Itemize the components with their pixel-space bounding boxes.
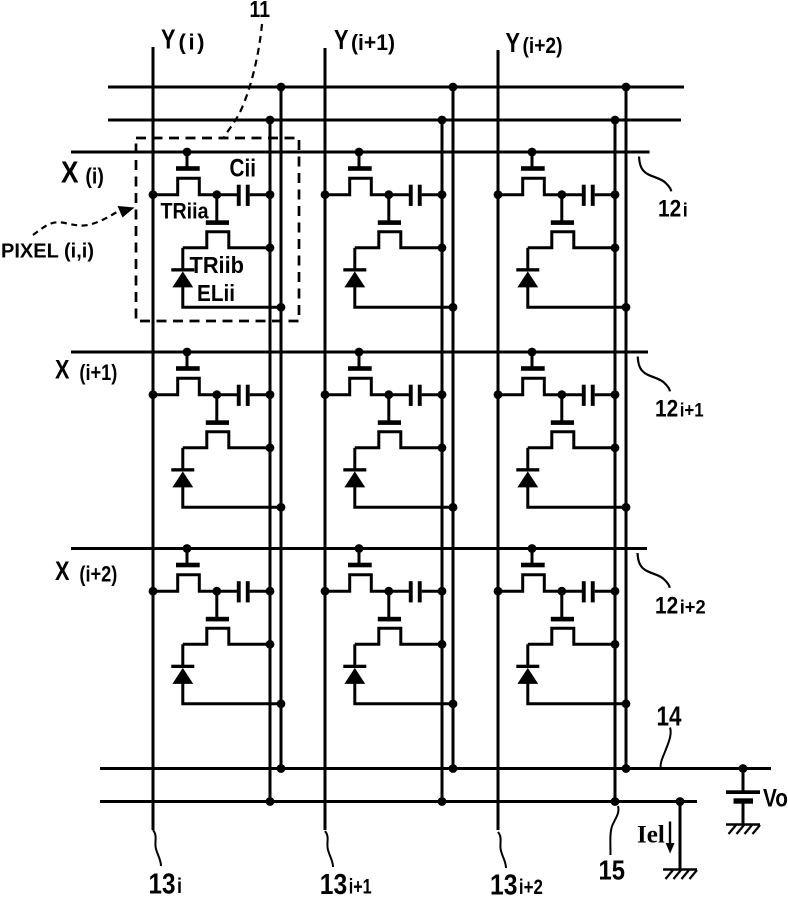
wire: top common rail segment of line 15 (108, 119, 681, 122)
wire: gate stub of TR(i,i)a (186, 152, 189, 167)
EL element EL(i,i) cathode bar (171, 268, 194, 271)
wire: capacitor C(i+2,i+2) to common feed (595, 590, 615, 593)
node: gate tap of pixel (i+2,i+2) on X(i+2) (528, 544, 537, 553)
svg-text:i: i (177, 875, 182, 897)
node: gate tap of pixel (i,i+1) on X(i) (355, 148, 364, 157)
transistor TR(i+2,i+1)a channel (325, 575, 389, 591)
transistor TR(i,i)a gate bar (176, 166, 200, 171)
leader: dashed curve from 11 to pixel box (224, 24, 262, 137)
node: bottom line 14 to feed i+1 (449, 764, 458, 773)
svg-text:(i+2): (i+2) (523, 33, 563, 58)
wire: EL(i+2,i+2) anode return (528, 683, 626, 704)
capacitor C(i+2,i) right plate (246, 581, 250, 602)
wire: pixel common feed line (net 15) column i+1 (441, 120, 444, 802)
wire: EL(i+2,i) anode return (183, 683, 281, 704)
svg-text:PIXEL (i,i): PIXEL (i,i) (1, 240, 94, 263)
wire: capacitor C(i+1,i) to common feed (250, 393, 270, 396)
transistor TR(i+2,i)b gate bar (206, 617, 229, 622)
EL element EL(i+2,i+1) cathode bar (343, 665, 366, 668)
wire: TR(i+1,i)b source to EL(i+1,i) (181, 448, 184, 470)
transistor TR(i+2,i+2)b channel (528, 628, 615, 644)
wire: TR(i,i)b source to EL(i,i) (181, 248, 184, 270)
EL element EL(i,i) diode triangle (172, 271, 193, 287)
EL element EL(i+2,i+2) diode triangle (517, 668, 538, 684)
leader: X(i+2) to 12i+2 (638, 553, 670, 588)
wire: EL(i,i+2) anode return (528, 287, 626, 308)
node: TR(i+1,i+2)b drain on feed line (611, 443, 620, 452)
wire: TR(i+2,i+1)b source to EL(i+2,i+1) (353, 644, 356, 666)
node: C(i+2,i) right plate on feed line (266, 587, 275, 596)
transistor TR(i+2,i)a gate bar (176, 563, 200, 568)
wire: junction to capacitor C(i+1,i+2) (562, 393, 582, 396)
svg-text:12: 12 (655, 396, 678, 423)
node: gate tap of pixel (i+2,i+1) on X(i+2) (355, 544, 364, 553)
svg-text:i+1: i+1 (349, 876, 372, 898)
node: TR(i+2,i)b drain on feed line (266, 640, 275, 649)
leader: Y(i+2) to 13i+2 (498, 832, 506, 868)
wire: bottom supply line 14 (100, 767, 771, 770)
svg-text:14: 14 (657, 701, 683, 732)
wire: pixel supply feed line (net 14) column i (280, 87, 283, 769)
node: bottom line 14 to feed i (277, 764, 286, 773)
wire: TR(i,i+1)b source to EL(i,i+1) (353, 248, 356, 270)
EL element EL(i+1,i) diode triangle (172, 471, 193, 487)
voltage source Vo bottom plate (734, 798, 754, 803)
wire: junction to capacitor C(i,i+2) (562, 193, 582, 196)
node: EL(i+1,i+2) anode on supply feed (622, 503, 631, 512)
capacitor C(i+1,i+2) right plate (591, 385, 595, 406)
node: TR(i+1,i+1)b drain on feed line (438, 443, 447, 452)
node: TR(i,i+2)b drain on feed line (611, 243, 620, 252)
wire: EL(i,i+1) anode return (355, 287, 453, 308)
capacitor C(i+1,i+2) left plate (582, 385, 586, 406)
node: gate tap of pixel (i+1,i+2) on X(i+1) (528, 348, 537, 357)
wire: junction to capacitor C(i,i) (217, 193, 237, 196)
svg-text:X: X (55, 355, 70, 385)
wire: gate stub of TR(i,i+2)b (560, 195, 563, 221)
wire: pixel supply feed line (net 14) column i+2 (625, 87, 628, 769)
leader: X(i) to 12i (639, 157, 671, 192)
wire: TR(i+1,i+1)b source to EL(i+1,i+1) (353, 448, 356, 470)
svg-text:12: 12 (658, 196, 681, 223)
node: TR(i+1,i+1)a drain junction (384, 390, 393, 399)
node: line14 rail to feed i+1 (449, 83, 458, 92)
svg-text:X: X (61, 155, 79, 190)
node: gate tap of pixel (i+1,i) on X(i+1) (183, 348, 192, 357)
wire: Vo branch stub (742, 769, 745, 792)
capacitor C(i+1,i+1) right plate (418, 385, 422, 406)
transistor TR(i+2,i+2)a gate bar (521, 563, 545, 568)
svg-text:i+1: i+1 (680, 401, 704, 422)
transistor TR(i+1,i+1)a channel (325, 378, 389, 394)
svg-text:15: 15 (599, 855, 626, 886)
svg-text:Y: Y (334, 24, 349, 55)
node: TR(i,i)a source on Y(i) (149, 190, 158, 199)
node: C(i,i+1) right plate on feed line (438, 190, 447, 199)
svg-text:TRiib: TRiib (190, 252, 245, 278)
transistor TR(i+2,i+2)b gate bar (551, 617, 574, 622)
wire: EL(i+1,i) anode return (183, 487, 281, 508)
wire: junction to capacitor C(i+1,i+1) (389, 393, 409, 396)
leader: 14 to line 14 (661, 728, 671, 769)
transistor TR(i,i+1)a channel (325, 178, 389, 194)
svg-text:TRiia: TRiia (161, 199, 209, 224)
svg-text:i: i (683, 201, 688, 222)
node: gate tap of pixel (i,i) on X(i) (183, 148, 192, 157)
node: bottom line 15 to feed i+1 (438, 797, 447, 806)
capacitor C(i+2,i+2) right plate (591, 581, 595, 602)
svg-text:(i+1): (i+1) (79, 360, 117, 385)
svg-text:Y: Y (161, 24, 176, 55)
transistor TR(i,i+2)b gate bar (551, 220, 574, 225)
transistor TR(i+1,i+1)b gate bar (378, 420, 401, 425)
transistor TR(i+1,i)b channel (183, 432, 270, 448)
transistor TR(i+1,i+2)b gate bar (551, 420, 574, 425)
transistor TR(i+1,i)b gate bar (206, 420, 229, 425)
wire: column data line Y(i+2) / 13i+2 (497, 50, 500, 830)
svg-text:X: X (55, 556, 70, 586)
wire: junction to capacitor C(i,i+1) (389, 193, 409, 196)
node: TR(i+2,i)a source on Y(i) (149, 587, 158, 596)
capacitor C(i,i) left plate (237, 185, 241, 206)
svg-text:ELii: ELii (197, 280, 235, 306)
wire: gate stub of TR(i+1,i)b (215, 395, 218, 421)
wire: Vo to ground (742, 804, 745, 825)
arrowhead of PIXEL leader (118, 206, 135, 218)
leader: Y(i) to 13i (153, 830, 161, 866)
node: TR(i+1,i)a drain junction (212, 390, 221, 399)
wire: TR(i+2,i)b source to EL(i+2,i) (181, 644, 184, 666)
wire: gate stub of TR(i+1,i)a (186, 352, 189, 367)
wire: gate stub of TR(i+2,i+2)b (560, 591, 563, 617)
node: gate tap of pixel (i+2,i) on X(i+2) (183, 544, 192, 553)
wire: EL(i,i) anode return (183, 287, 281, 308)
svg-text:Cii: Cii (230, 155, 257, 183)
node: TR(i+2,i+1)a source on Y(i+1) (321, 587, 330, 596)
EL element EL(i,i+2) diode triangle (517, 271, 538, 287)
capacitor C(i,i) right plate (246, 185, 250, 206)
node: TR(i+1,i)b drain on feed line (266, 443, 275, 452)
node: EL(i,i) anode on supply feed (277, 303, 286, 312)
transistor TR(i+1,i+1)a gate bar (348, 366, 372, 371)
node: TR(i,i+2)a source on Y(i+2) (494, 190, 503, 199)
transistor TR(i+2,i+2)a channel (498, 575, 562, 591)
node: EL(i+2,i) anode on supply feed (277, 699, 286, 708)
node: bottom line 14 to feed i+2 (622, 764, 631, 773)
wire: gate stub of TR(i+1,i+1)b (387, 395, 390, 421)
node: bottom line 15 to feed i+2 (611, 797, 620, 806)
node: TR(i,i+2)a drain junction (557, 190, 566, 199)
wire: gate stub of TR(i+2,i+2)a (531, 549, 534, 564)
EL element EL(i,i+1) cathode bar (343, 268, 366, 271)
wire: junction to capacitor C(i+1,i) (217, 393, 237, 396)
node: TR(i+2,i+2)a source on Y(i+2) (494, 587, 503, 596)
wire: pixel common feed line (net 15) column i (269, 120, 272, 802)
transistor TR(i,i)b gate bar (206, 220, 229, 225)
transistor TR(i,i+2)b channel (528, 232, 615, 248)
wire: capacitor C(i,i+1) to common feed (422, 193, 442, 196)
capacitor C(i+2,i+1) left plate (409, 581, 413, 602)
node: EL(i+1,i+1) anode on supply feed (449, 503, 458, 512)
transistor TR(i+1,i+1)b channel (355, 432, 442, 448)
transistor TR(i+1,i+2)b channel (528, 432, 615, 448)
capacitor C(i,i+2) left plate (582, 185, 586, 206)
wire: gate stub of TR(i,i)b (215, 195, 218, 221)
wire: capacitor C(i,i+2) to common feed (595, 193, 615, 196)
wire: pixel common feed line (net 15) column i+2 (614, 120, 617, 802)
node: C(i+1,i) right plate on feed line (266, 390, 275, 399)
wire: junction to capacitor C(i+2,i+1) (389, 590, 409, 593)
wire: gate stub of TR(i+2,i+1)a (358, 549, 361, 564)
node: C(i+2,i+1) right plate on feed line (438, 587, 447, 596)
node: EL(i+1,i) anode on supply feed (277, 503, 286, 512)
transistor TR(i+2,i+1)b channel (355, 628, 442, 644)
EL element EL(i+1,i+2) cathode bar (516, 468, 539, 471)
transistor TR(i,i+2)a gate bar (521, 166, 545, 171)
EL element EL(i+2,i) cathode bar (171, 665, 194, 668)
wire: capacitor C(i+1,i+1) to common feed (422, 393, 442, 396)
node: line15 rail to feed i+2 (611, 116, 620, 125)
node: line14 rail to feed i (277, 83, 286, 92)
wire: gate stub of TR(i+2,i)b (215, 591, 218, 617)
wire: capacitor C(i+1,i+2) to common feed (595, 393, 615, 396)
node: EL(i+2,i+2) anode on supply feed (622, 699, 631, 708)
ground for Vo (726, 823, 760, 826)
svg-text:i+2: i+2 (680, 598, 706, 619)
node: C(i+1,i+1) right plate on feed line (438, 390, 447, 399)
wire: row select line X(i+1) / 12i+1 (71, 351, 648, 354)
node: line15 rail to feed i (266, 116, 275, 125)
node: TR(i+2,i+1)b drain on feed line (438, 640, 447, 649)
EL element EL(i+1,i+1) diode triangle (344, 471, 365, 487)
voltage source Vo top plate (726, 790, 760, 794)
svg-text:13: 13 (490, 870, 517, 898)
wire: row select line X(i) / 12i (71, 151, 650, 154)
EL element EL(i,i+2) cathode bar (516, 268, 539, 271)
node: TR(i,i)a drain junction (212, 190, 221, 199)
transistor TR(i,i+1)b channel (355, 232, 442, 248)
wire: capacitor C(i+2,i) to common feed (250, 590, 270, 593)
wire: TR(i,i+2)b source to EL(i,i+2) (526, 248, 529, 270)
EL element EL(i+2,i) diode triangle (172, 668, 193, 684)
current arrow Iel (669, 822, 671, 846)
capacitor C(i,i+1) left plate (409, 185, 413, 206)
node: line14 rail to feed i+2 (622, 83, 631, 92)
transistor TR(i,i+1)a gate bar (348, 166, 372, 171)
EL element EL(i+2,i+2) cathode bar (516, 665, 539, 668)
transistor TR(i,i+2)a channel (498, 178, 562, 194)
node: TR(i+2,i+2)b drain on feed line (611, 640, 620, 649)
transistor TR(i,i)b channel (183, 232, 270, 248)
svg-text:13: 13 (149, 869, 176, 898)
wire: row select line X(i+2) / 12i+2 (71, 547, 647, 550)
wire: TR(i+1,i+2)b source to EL(i+1,i+2) (526, 448, 529, 470)
svg-text:13: 13 (320, 869, 347, 897)
transistor TR(i+2,i)b channel (183, 628, 270, 644)
node: C(i,i+2) right plate on feed line (611, 190, 620, 199)
svg-text:(i+1): (i+1) (351, 30, 395, 55)
EL element EL(i+1,i) cathode bar (171, 468, 194, 471)
node: TR(i,i)b drain on feed line (266, 243, 275, 252)
wire: junction to capacitor C(i+2,i) (217, 590, 237, 593)
wire: gate stub of TR(i,i+1)a (358, 152, 361, 167)
ground for line 15 (663, 868, 697, 871)
svg-text:(i+2): (i+2) (79, 562, 117, 587)
wire: gate stub of TR(i+1,i+2)b (560, 395, 563, 421)
wire: gate stub of TR(i,i+1)b (387, 195, 390, 221)
wire: gate stub of TR(i+1,i+2)a (531, 352, 534, 367)
node: bottom line 15 to feed i (266, 797, 275, 806)
wire: top supply rail segment of line 14 (108, 86, 684, 89)
svg-text:11: 11 (250, 0, 271, 22)
node: TR(i+1,i+1)a source on Y(i+1) (321, 390, 330, 399)
wire: gate stub of TR(i,i+2)a (531, 152, 534, 167)
wire: EL(i+1,i+1) anode return (355, 487, 453, 508)
transistor TR(i+1,i+2)a gate bar (521, 366, 545, 371)
node: EL(i+2,i+1) anode on supply feed (449, 699, 458, 708)
transistor TR(i+2,i+1)b gate bar (378, 617, 401, 622)
transistor TR(i+2,i+1)a gate bar (348, 563, 372, 568)
wire: capacitor C(i+2,i+1) to common feed (422, 590, 442, 593)
EL element EL(i,i+1) diode triangle (344, 271, 365, 287)
wire: capacitor C(i,i) to common feed (250, 193, 270, 196)
svg-text:Vo: Vo (763, 785, 788, 813)
transistor TR(i,i)a channel (153, 178, 217, 194)
wire: column data line Y(i+1) / 13i+1 (324, 48, 327, 830)
capacitor C(i+2,i+1) right plate (418, 581, 422, 602)
node: C(i+2,i+2) right plate on feed line (611, 587, 620, 596)
node: TR(i,i+1)b drain on feed line (438, 243, 447, 252)
transistor TR(i+1,i)a channel (153, 378, 217, 394)
leader: X(i+1) to 12i+1 (638, 357, 670, 392)
node: TR(i,i+1)a source on Y(i+1) (321, 190, 330, 199)
EL element EL(i+1,i+1) cathode bar (343, 468, 366, 471)
EL element EL(i+1,i+2) diode triangle (517, 471, 538, 487)
wire: gate stub of TR(i+1,i+1)a (358, 352, 361, 367)
leader: dashed arrow from PIXEL label to box (33, 212, 117, 235)
svg-text:(i): (i) (179, 30, 205, 55)
node: TR(i+1,i+2)a source on Y(i+2) (494, 390, 503, 399)
node: TR(i,i+1)a drain junction (384, 190, 393, 199)
wire: junction to capacitor C(i+2,i+2) (562, 590, 582, 593)
node: TR(i+1,i)a source on Y(i) (149, 390, 158, 399)
node: line 14 to Vo branch (739, 764, 748, 773)
svg-text:Y: Y (506, 27, 521, 58)
wire: EL(i+1,i+2) anode return (528, 487, 626, 508)
wire: EL(i+2,i+1) anode return (355, 683, 453, 704)
transistor TR(i+2,i)a channel (153, 575, 217, 591)
svg-text:i+2: i+2 (519, 876, 543, 897)
node: TR(i+1,i+2)a drain junction (557, 390, 566, 399)
svg-text:12: 12 (655, 593, 678, 620)
transistor TR(i+1,i+2)a channel (498, 378, 562, 394)
wire: gate stub of TR(i+2,i+1)b (387, 591, 390, 617)
leader: line 15 to 15 (610, 806, 618, 855)
node: C(i+1,i+2) right plate on feed line (611, 390, 620, 399)
transistor TR(i,i+1)b gate bar (378, 220, 401, 225)
capacitor C(i+2,i+2) left plate (582, 581, 586, 602)
svg-text:(i): (i) (85, 164, 104, 189)
capacitor C(i,i+1) right plate (418, 185, 422, 206)
wire: gate stub of TR(i+2,i)a (186, 549, 189, 564)
wire: pixel supply feed line (net 14) column i+1 (452, 87, 455, 769)
capacitor C(i,i+2) right plate (591, 185, 595, 206)
pixel (i,i) dashed boundary box 11 (136, 138, 299, 321)
capacitor C(i+1,i) left plate (237, 385, 241, 406)
capacitor C(i+1,i+1) left plate (409, 385, 413, 406)
node: TR(i+2,i+2)a drain junction (557, 587, 566, 596)
capacitor C(i+1,i) right plate (246, 385, 250, 406)
node: gate tap of pixel (i+1,i+1) on X(i+1) (355, 348, 364, 357)
wire: Iel ground leg (679, 802, 682, 870)
node: gate tap of pixel (i,i+2) on X(i) (528, 148, 537, 157)
wire: bottom common line 15 (100, 800, 697, 803)
node: C(i,i) right plate on feed line (266, 190, 275, 199)
node: EL(i,i+2) anode on supply feed (622, 303, 631, 312)
node: TR(i+2,i+1)a drain junction (384, 587, 393, 596)
wire: TR(i+2,i+2)b source to EL(i+2,i+2) (526, 644, 529, 666)
node: EL(i,i+1) anode on supply feed (449, 303, 458, 312)
transistor TR(i+1,i)a gate bar (176, 366, 200, 371)
leader: Y(i+1) to 13i+1 (325, 831, 333, 867)
node: line 15 to Iel ground leg (676, 797, 685, 806)
node: line15 rail to feed i+1 (438, 116, 447, 125)
svg-text:Iel: Iel (637, 822, 665, 849)
capacitor C(i+2,i) left plate (237, 581, 241, 602)
EL element EL(i+2,i+1) diode triangle (344, 668, 365, 684)
node: TR(i+2,i)a drain junction (212, 587, 221, 596)
wire: column data line Y(i) / 13i (152, 47, 155, 830)
